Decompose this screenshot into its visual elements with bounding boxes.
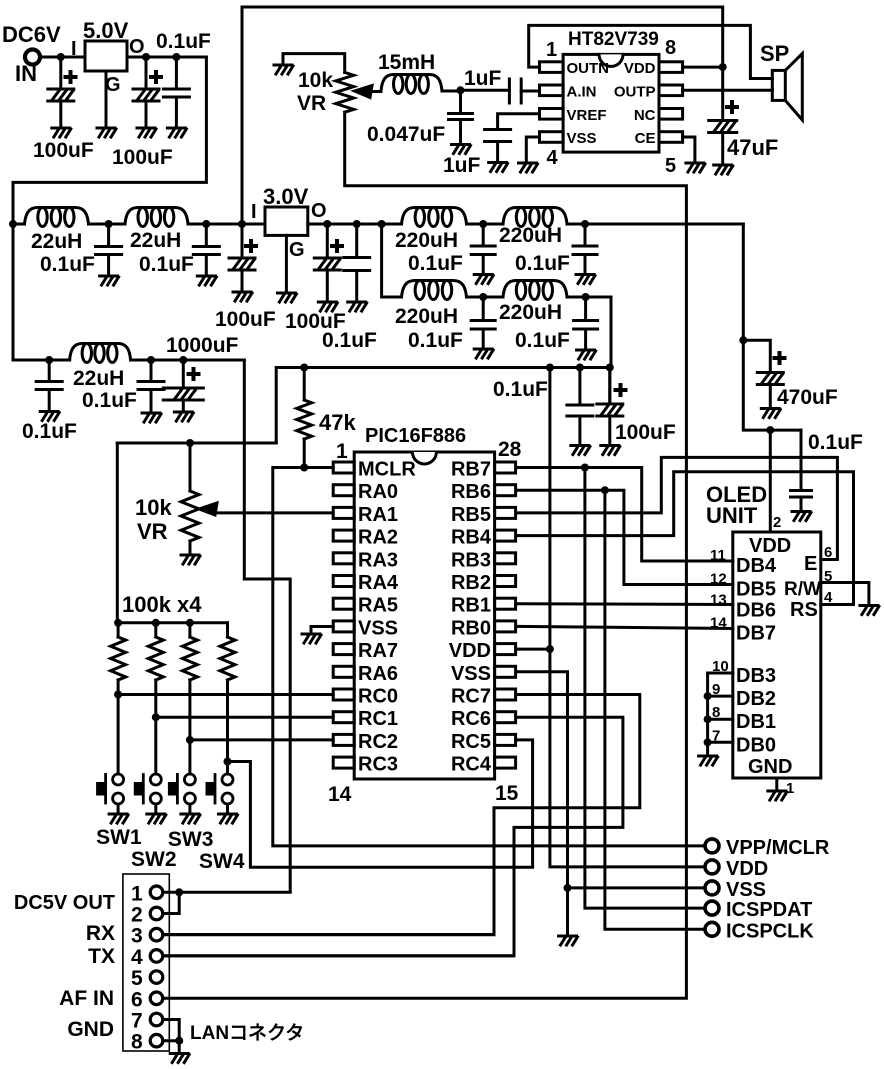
label 100uF rail2	[215, 308, 276, 331]
ground OLED GND	[768, 791, 787, 800]
wire 47uF lead	[721, 67, 724, 120]
capacitor 0.1uF B1	[471, 321, 495, 330]
svg-text:8: 8	[665, 37, 676, 59]
label I 3V reg	[251, 201, 257, 223]
label 220uH B2	[499, 301, 562, 324]
pin circle 6 LAN	[150, 992, 163, 1005]
pin label DB6	[736, 600, 776, 622]
pin number 2 OLED	[773, 514, 781, 531]
svg-text:RC6: RC6	[451, 708, 491, 730]
wire PIC VDD pin	[516, 648, 550, 651]
inductor 220uH B2	[503, 281, 567, 300]
pin box PIC right 22	[495, 598, 516, 609]
pin number 11	[710, 547, 726, 564]
svg-text:1: 1	[786, 780, 794, 797]
wire RB7 to DB4	[516, 468, 733, 562]
svg-text:VDD: VDD	[749, 535, 791, 557]
node railA 100uF	[323, 220, 331, 228]
wire 0.1uF VDD gnd	[578, 416, 581, 445]
pin label RA5	[358, 595, 398, 617]
label 15mH	[378, 51, 435, 74]
svg-text:RB7: RB7	[451, 459, 491, 481]
pin label OUTP	[614, 83, 656, 100]
label SW1	[96, 826, 142, 849]
node rail2 100uF junction	[238, 220, 246, 228]
wire railA 100uF gnd	[326, 270, 329, 301]
label VDD	[726, 858, 768, 880]
label 100uF VDD	[615, 421, 676, 444]
svg-text:UNIT: UNIT	[706, 503, 758, 528]
svg-text:DB2: DB2	[736, 688, 776, 710]
svg-text:SW3: SW3	[168, 828, 214, 851]
pin number 13	[710, 592, 727, 609]
pin label RA2	[358, 527, 398, 549]
svg-text:15mH: 15mH	[378, 51, 435, 74]
wire rail3 segment a	[13, 359, 70, 362]
pin number 8 LAN	[131, 1031, 143, 1054]
wire rail3 c0 gnd	[48, 390, 51, 411]
wire SW4 to ground	[226, 804, 229, 813]
label 0.1uF top-left	[156, 30, 211, 53]
svg-text:0.1uF: 0.1uF	[22, 420, 77, 443]
pin box PIC right 28	[495, 462, 516, 473]
node RC2 tap	[186, 736, 194, 744]
inductor 220uH B1	[402, 281, 467, 300]
label RX	[86, 922, 115, 945]
svg-text:PIC16F886: PIC16F886	[365, 425, 466, 447]
pin label RC7	[451, 686, 491, 708]
node rail2 c1	[105, 220, 113, 228]
wire R2 to SW2	[154, 680, 157, 774]
pin box PIC left 9	[333, 644, 354, 655]
wire 0.047uF lead	[459, 90, 462, 113]
node rowB c1	[479, 293, 487, 301]
node railA 0.1uF	[353, 220, 361, 228]
svg-text:ICSPCLK: ICSPCLK	[726, 920, 814, 942]
label LAN connector	[190, 1022, 304, 1044]
wire PIC VSS right	[516, 672, 568, 935]
pin box PIC left 4	[333, 530, 354, 541]
svg-text:10k: 10k	[135, 495, 172, 520]
wire rail2 segment b	[89, 223, 126, 226]
node HT VDD junction	[719, 63, 727, 71]
svg-text:VR: VR	[137, 519, 168, 544]
svg-text:RB2: RB2	[451, 572, 491, 594]
ground VSS net	[559, 936, 578, 945]
wire rail2 cap2 gnd	[205, 255, 208, 276]
wire rowB c2 lead	[584, 297, 587, 321]
node DB0 tie	[704, 738, 712, 746]
wire regulator G to ground	[105, 71, 108, 128]
node rail3 1000uF	[179, 356, 187, 364]
ic U2 PIC16F886 body	[354, 452, 494, 779]
svg-text:0.1uF: 0.1uF	[493, 378, 548, 401]
pin number 4 HT	[547, 147, 559, 169]
node 100k R1 top	[114, 619, 122, 627]
wire railA c2 lead	[584, 224, 587, 246]
pin label A.IN	[567, 83, 597, 100]
svg-text:R/W: R/W	[784, 579, 821, 600]
capacitor 0.1uF output	[163, 89, 189, 97]
svg-text:ICSPDAT: ICSPDAT	[726, 899, 812, 921]
label 3.0V	[263, 184, 309, 209]
pin number 4 OLED	[824, 589, 833, 606]
svg-text:100uF: 100uF	[615, 421, 676, 444]
svg-text:5.0V: 5.0V	[83, 18, 129, 43]
label VR volume	[297, 92, 326, 115]
wire 5V output rail	[127, 56, 206, 59]
svg-text:0.1uF: 0.1uF	[808, 431, 863, 454]
pin label RC3	[358, 754, 398, 776]
svg-text:47k: 47k	[319, 410, 356, 435]
pin label VSS	[567, 130, 597, 147]
ground 3V reg	[277, 293, 296, 302]
label 22uH 1	[31, 230, 82, 253]
capacitor 1000uF	[163, 388, 203, 400]
ground C1	[52, 128, 71, 137]
node audio filter	[457, 86, 465, 94]
wire VSS row	[568, 886, 705, 889]
pin box PIC left 12	[333, 712, 354, 723]
wire IN to regulator	[41, 56, 86, 59]
label 0.047uF	[367, 123, 445, 146]
svg-text:DB3: DB3	[736, 665, 776, 687]
capacitor 470uF	[757, 373, 783, 385]
label DC6V	[2, 22, 61, 47]
node 47k top	[300, 364, 308, 372]
wire pot rail	[117, 442, 276, 445]
wire railA segment a	[308, 223, 402, 226]
label ICSPDAT	[726, 899, 812, 921]
svg-text:22uH: 22uH	[130, 229, 181, 252]
svg-text:A.IN: A.IN	[567, 83, 597, 100]
svg-text:DC5V OUT: DC5V OUT	[14, 892, 115, 914]
wire 100k R1 top lead	[117, 623, 120, 637]
node pin1-2 tie	[175, 888, 183, 896]
svg-text:MCLR: MCLR	[358, 459, 416, 481]
ground rail3 c1	[142, 413, 161, 422]
pin box PIC right 23	[495, 576, 516, 587]
wire railA c2 gnd	[584, 255, 587, 274]
inductor 220uH A2	[503, 208, 567, 227]
svg-text:47uF: 47uF	[727, 135, 778, 160]
ground 0.1uF B1	[474, 349, 493, 358]
wire 1000uF gnd	[182, 400, 185, 411]
svg-text:220uH: 220uH	[499, 301, 562, 324]
wire RC2 row	[190, 738, 333, 741]
speaker SP	[772, 54, 802, 121]
svg-text:0.1uF: 0.1uF	[408, 329, 463, 352]
wire OUTP to speaker	[683, 89, 773, 92]
pin label OLED VDD	[749, 535, 791, 557]
svg-text:3.0V: 3.0V	[263, 184, 309, 209]
svg-text:G: G	[289, 239, 305, 261]
wire RC1 row	[156, 716, 333, 719]
svg-text:4: 4	[131, 946, 143, 969]
svg-text:RA5: RA5	[358, 595, 398, 617]
capacitor 1uF coupling	[509, 79, 521, 103]
wire rowB c2 gnd	[584, 329, 587, 349]
resistor 100k R3	[182, 637, 197, 680]
capacitor 100uF input +	[66, 72, 76, 82]
wire pin3 RX	[163, 933, 494, 936]
wire wiper to RA1	[215, 511, 333, 514]
label DC5V OUT	[14, 892, 115, 914]
wire RC6 to TX	[163, 717, 623, 956]
terminal IN	[25, 50, 40, 65]
pin box PIC right 18	[495, 689, 516, 700]
svg-text:VSS: VSS	[567, 130, 597, 147]
wire 0.1uF OLED lead	[800, 430, 803, 490]
pin label RC0	[358, 686, 398, 708]
connector box LAN	[123, 874, 169, 1051]
node DB2 tie	[704, 692, 712, 700]
wire pin4 TX	[163, 954, 514, 957]
svg-text:DC6V: DC6V	[2, 22, 61, 47]
svg-text:O: O	[129, 36, 145, 58]
pin label MCLR	[358, 459, 416, 481]
wire 0.1uF C3 lead	[175, 57, 178, 89]
node RC0 tap	[114, 691, 122, 699]
pin box HT left 4	[540, 132, 564, 143]
svg-text:DB0: DB0	[736, 734, 776, 756]
node 100k R2 top	[152, 619, 160, 627]
svg-text:RA6: RA6	[358, 663, 398, 685]
svg-text:22uH: 22uH	[73, 367, 124, 390]
terminal ICSPCLK	[705, 922, 719, 936]
svg-text:0.1uF: 0.1uF	[322, 329, 377, 352]
label O (output pin)	[129, 36, 145, 58]
pin circle 3 LAN	[150, 928, 163, 941]
wire rail3 c1 lead	[150, 360, 153, 382]
label 100uF output	[112, 146, 173, 169]
wire rowB segment b	[467, 296, 504, 299]
node pin7-8 tie	[175, 1037, 183, 1045]
pin circle 7 LAN	[150, 1013, 163, 1026]
wire 1000uF lead	[182, 360, 185, 388]
wire rail3 segment b	[131, 359, 245, 362]
pin label RB0	[451, 617, 491, 639]
wiper arrow contrast VR	[199, 503, 217, 515]
svg-text:5: 5	[131, 967, 143, 990]
svg-text:VPP/MCLR: VPP/MCLR	[726, 837, 830, 859]
svg-text:DB4: DB4	[736, 555, 777, 577]
pin number 8	[712, 704, 720, 721]
wire 1uF shunt to ground	[496, 142, 499, 163]
node 100k R3 top	[186, 619, 194, 627]
pin label RB3	[451, 549, 491, 571]
svg-text:HT82V739: HT82V739	[568, 29, 659, 50]
pin label DB2	[736, 688, 776, 710]
pin number 1 PIC	[336, 440, 348, 463]
label HT82V739	[568, 29, 659, 50]
svg-text:RC0: RC0	[358, 686, 398, 708]
pin number 28 PIC	[498, 438, 522, 461]
label 22uH rail3	[73, 367, 124, 390]
pin number 6 LAN	[131, 988, 143, 1011]
svg-text:0.1uF: 0.1uF	[40, 253, 95, 276]
capacitor 100uF rail2	[229, 258, 255, 270]
pin box PIC left 8	[333, 621, 354, 632]
wire rail3 c1 gnd	[150, 390, 153, 413]
label 0.1uF railA	[322, 329, 377, 352]
svg-text:220uH: 220uH	[395, 305, 458, 328]
pin box PIC left 11	[333, 689, 354, 700]
pin box PIC right 17	[495, 712, 516, 723]
svg-text:RC7: RC7	[451, 686, 491, 708]
capacitor 1uF shunt	[485, 130, 511, 142]
pin box PIC right 16	[495, 734, 516, 745]
wire R3 to SW3	[188, 680, 191, 774]
svg-text:RB4: RB4	[451, 527, 492, 549]
pin label DB5	[736, 579, 776, 601]
pin label R/W	[784, 579, 821, 600]
pin label OLED GND	[748, 756, 792, 778]
ground volume VR top	[274, 65, 293, 74]
ground 1000uF	[174, 412, 193, 421]
svg-text:RB1: RB1	[451, 595, 491, 617]
pin label RA7	[358, 640, 398, 662]
ground C2	[137, 128, 156, 137]
wire R1 to SW1	[117, 680, 120, 774]
svg-text:VDD: VDD	[449, 640, 491, 662]
node 0.1uF VDD	[576, 364, 584, 372]
pin box PIC right 24	[495, 553, 516, 564]
wire OLED GND stub	[775, 778, 778, 790]
capacitor 47uF	[709, 121, 737, 133]
node OLED VDD tap	[766, 426, 774, 434]
wire top 5V rail	[242, 7, 723, 224]
wire 47uF to ground	[721, 133, 724, 165]
ground 0.1uF railA	[348, 302, 367, 311]
wire 0.1uF OLED gnd	[800, 497, 803, 511]
svg-text:2: 2	[131, 904, 143, 927]
label 0.1uF rail2-2	[139, 253, 194, 276]
pin box PIC left 1	[333, 462, 354, 473]
node railA c1	[479, 220, 487, 228]
inductor 22uH 1	[25, 208, 89, 227]
svg-text:0.1uF: 0.1uF	[408, 252, 463, 275]
svg-text:GND: GND	[67, 1018, 114, 1041]
pin label NC	[634, 107, 656, 124]
svg-text:VR: VR	[297, 92, 326, 115]
svg-text:AF IN: AF IN	[59, 987, 114, 1010]
label VSS	[726, 879, 766, 901]
pin number 5 HT	[665, 155, 676, 177]
capacitor 100uF VDD	[597, 404, 623, 416]
wire SW3 to ground	[188, 804, 191, 813]
wire 5V loop to filter rail	[13, 57, 206, 360]
wire VREF to 1uF shunt	[498, 114, 540, 130]
svg-text:SW4: SW4	[199, 850, 245, 873]
ground 100uF VDD	[601, 446, 620, 455]
svg-text:RA7: RA7	[358, 640, 398, 662]
ground HT VSS	[519, 163, 538, 172]
capacitor 100uF input	[48, 89, 74, 101]
label 100uF railA	[285, 310, 346, 333]
op-amp U1 HT82V739 body	[563, 54, 659, 152]
pin label DB3	[736, 665, 776, 687]
label 0.1uF B1	[408, 329, 463, 352]
capacitor 100uF output +	[151, 72, 161, 82]
wire 100k R4 top lead	[226, 623, 229, 637]
wire C2 to ground	[145, 101, 148, 128]
pin circle 4 LAN	[150, 950, 163, 963]
pin circle 5 LAN	[150, 971, 163, 984]
terminal ICSPDAT	[705, 901, 719, 915]
node 100uF output junction	[142, 53, 150, 61]
svg-text:OUTP: OUTP	[614, 83, 656, 100]
wire ICSPDAT riser	[585, 468, 705, 909]
switch SW2	[135, 774, 161, 804]
node pot top	[186, 439, 194, 447]
pin label DB1	[736, 711, 776, 733]
wire RB6 to DB5	[516, 490, 733, 584]
resistor 47k	[297, 400, 312, 439]
pin label RC6	[451, 708, 491, 730]
svg-text:100uF: 100uF	[112, 146, 173, 169]
pin number 14	[710, 615, 727, 632]
svg-text:RA4: RA4	[358, 572, 399, 594]
label I (input pin)	[71, 38, 77, 60]
svg-text:RC5: RC5	[451, 731, 491, 753]
potentiometer 10k VR contrast	[181, 491, 199, 541]
svg-text:1000uF: 1000uF	[166, 334, 239, 357]
capacitor 0.1uF rail3-0	[36, 382, 62, 390]
pin label RB4	[451, 527, 492, 549]
node railA rowB tap	[378, 220, 386, 228]
svg-text:6: 6	[131, 988, 143, 1011]
pin number 1 LAN	[131, 882, 143, 905]
ic U3 OLED unit body	[733, 532, 821, 778]
label IN	[15, 61, 37, 86]
wire rail3 c0 lead	[48, 360, 51, 382]
capacitor 47uF +	[727, 102, 737, 112]
pin number 1 HT	[546, 39, 557, 61]
pin label RA1	[358, 504, 398, 526]
svg-text:0.1uF: 0.1uF	[515, 329, 570, 352]
wire 1uF to A.IN	[521, 90, 539, 93]
label 22uH 2	[130, 229, 181, 252]
capacitor 100uF VDD +	[616, 385, 626, 395]
ground 1uF shunt	[489, 163, 508, 172]
wiper arrow volume VR	[355, 86, 373, 98]
wire DB3 stub	[708, 673, 733, 755]
pin label CE	[635, 130, 656, 147]
wire RB0 to DB7	[516, 626, 733, 628]
pin circle 2 LAN	[150, 907, 163, 920]
capacitor 0.1uF A2	[573, 246, 597, 255]
wire rail2 cap1 lead	[107, 224, 110, 247]
wire VDD net riser	[550, 368, 705, 867]
pin box PIC right 15	[495, 757, 516, 768]
pin label VSS	[451, 663, 491, 685]
pin label RA6	[358, 663, 398, 685]
node 100uF VDD	[606, 364, 614, 372]
label UNIT	[706, 503, 758, 528]
pin box PIC left 5	[333, 553, 354, 564]
pin box PIC right 19	[495, 666, 516, 677]
pin box HT right 6	[659, 109, 683, 120]
label 220uH B1	[395, 305, 458, 328]
svg-text:DB7: DB7	[736, 623, 776, 645]
label ICSPCLK	[726, 920, 814, 942]
svg-text:VREF: VREF	[567, 107, 607, 124]
wire MCLR net	[273, 468, 705, 846]
capacitor 100uF rail2 +	[246, 241, 256, 251]
svg-text:5: 5	[665, 155, 676, 177]
terminal VSS	[705, 881, 719, 895]
